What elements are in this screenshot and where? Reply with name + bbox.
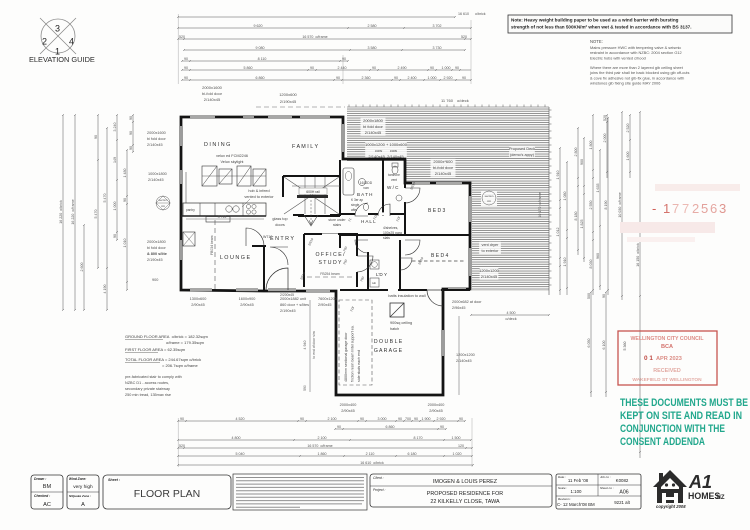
svg-text:5 860: 5 860 <box>244 66 253 70</box>
svg-text:1 020: 1 020 <box>453 452 462 456</box>
door ldy <box>400 258 412 270</box>
svg-text:1 480: 1 480 <box>123 169 127 178</box>
deck top edge with ticks <box>347 105 549 108</box>
svg-text:6 860: 6 860 <box>386 425 395 429</box>
kitchen bench outline <box>183 203 266 216</box>
svg-text:2/140x45: 2/140x45 <box>365 130 382 135</box>
svg-text:4 190: 4 190 <box>103 285 107 294</box>
door gap bath <box>355 212 368 215</box>
svg-text:5 470: 5 470 <box>94 210 98 219</box>
svg-text:10 170 o/frame: 10 170 o/frame <box>538 192 542 217</box>
svg-text:TOTAL FLOOR AREA = 244.67sqm o: TOTAL FLOOR AREA = 244.67sqm o/brick <box>125 357 201 362</box>
svg-text:bi fold door: bi fold door <box>147 137 167 141</box>
garage left dims <box>309 300 311 392</box>
svg-text:3 240: 3 240 <box>113 123 117 132</box>
svg-text:stairs: stairs <box>333 223 341 227</box>
svg-text:90: 90 <box>94 135 98 139</box>
svg-text:90: 90 <box>129 146 133 150</box>
svg-text:2: 2 <box>692 201 699 216</box>
svg-text:Date :: Date : <box>558 475 566 479</box>
svg-text:Note: Heavy weight building pa: Note: Heavy weight building paper to be … <box>511 18 679 23</box>
svg-text:single: single <box>351 203 360 207</box>
kitchen side counter <box>185 172 187 203</box>
svg-text:L'D Y: L'D Y <box>376 272 387 277</box>
svg-text:2/190x45: 2/190x45 <box>280 309 296 313</box>
svg-text:vent dryer: vent dryer <box>482 243 500 247</box>
door garage entry <box>427 290 443 306</box>
svg-text:very high: very high <box>73 484 93 490</box>
interior wall bath/wc <box>340 159 405 235</box>
svg-text:4 713: 4 713 <box>218 215 227 219</box>
svg-text:8 030: 8 030 <box>589 260 593 269</box>
svg-text:K0082: K0082 <box>616 478 629 483</box>
svg-text:2 920: 2 920 <box>437 417 446 421</box>
svg-text:section: section <box>159 198 168 202</box>
svg-text:W710: W710 <box>263 235 272 239</box>
svg-text:G A R A G E: G A R A G E <box>374 348 403 354</box>
svg-text:90: 90 <box>360 417 364 421</box>
svg-text:Sheet :: Sheet : <box>108 478 121 482</box>
svg-text:S T U D Y: S T U D Y <box>318 260 342 266</box>
svg-text:3: 3 <box>719 201 726 216</box>
window left wall 2 <box>180 170 182 184</box>
svg-text:1 010: 1 010 <box>123 239 127 248</box>
svg-text:6 100: 6 100 <box>602 341 606 350</box>
svg-text:2 550: 2 550 <box>589 201 593 210</box>
svg-text:tub: tub <box>372 281 377 285</box>
svg-text:Scale :: Scale : <box>558 486 567 490</box>
door gap bed3 <box>403 188 406 202</box>
svg-text:120: 120 <box>458 444 464 448</box>
svg-text:2: 2 <box>42 37 47 47</box>
svg-text:90: 90 <box>300 417 304 421</box>
deck label vent dryer <box>479 242 501 254</box>
door gap ldy bottom <box>388 288 398 291</box>
floor area text block <box>125 334 208 397</box>
svg-text:GROUND FLOOR AREA o/brick = 1: GROUND FLOOR AREA o/brick = 182.32sqm <box>125 334 208 339</box>
note box heavy weight building paper <box>508 15 732 33</box>
svg-text:AA: AA <box>161 204 165 208</box>
stairs bottom wall segments <box>293 214 340 216</box>
svg-text:2/90x45: 2/90x45 <box>318 303 332 307</box>
svg-text:CONJUNCTION WITH THE: CONJUNCTION WITH THE <box>620 423 725 435</box>
kitchen sink circles <box>226 206 232 212</box>
hall toilet small <box>363 204 368 211</box>
svg-text:5 360: 5 360 <box>623 342 627 351</box>
kitchen oven <box>183 232 195 246</box>
dashed line above top wall <box>256 106 345 108</box>
svg-text:1 012: 1 012 <box>556 228 560 237</box>
svg-text:2 440: 2 440 <box>338 66 347 70</box>
svg-text:velux ed FCM2246: velux ed FCM2246 <box>216 154 248 158</box>
svg-text:1 825: 1 825 <box>580 220 584 229</box>
svg-text:Client :: Client : <box>373 476 384 480</box>
svg-text:1 080: 1 080 <box>563 192 567 201</box>
svg-text:-: - <box>652 201 656 216</box>
svg-text:90: 90 <box>184 66 188 70</box>
svg-text:o/frame = 179.35sqm: o/frame = 179.35sqm <box>166 340 205 345</box>
laundry tub and machines <box>370 260 379 269</box>
svg-text:K 3er ap: K 3er ap <box>351 198 363 202</box>
svg-text:after: after <box>351 208 358 212</box>
svg-text:90: 90 <box>184 76 188 80</box>
skylight boxes <box>202 166 266 186</box>
svg-text:1 860: 1 860 <box>318 452 327 456</box>
svg-text:doors: doors <box>275 223 285 227</box>
svg-text:2000x1600: 2000x1600 <box>147 131 166 135</box>
svg-text:B E D 3: B E D 3 <box>428 208 445 214</box>
svg-text:Velux skylight: Velux skylight <box>220 160 244 164</box>
svg-text:90: 90 <box>129 131 133 135</box>
svg-text:2 000: 2 000 <box>603 134 607 143</box>
door gap hall-entry <box>322 233 338 236</box>
svg-text:1:100: 1:100 <box>571 489 583 494</box>
bath basin <box>359 179 366 186</box>
svg-text:90: 90 <box>372 66 376 70</box>
dim extension verticals top <box>178 14 471 84</box>
kitchen bench front edge <box>181 215 266 217</box>
window left wall 1 <box>180 126 182 146</box>
svg-text:8 170: 8 170 <box>414 436 423 440</box>
svg-text:4/shelves,: 4/shelves, <box>383 226 398 230</box>
svg-text:860 door + s/lites: 860 door + s/lites <box>280 303 309 307</box>
svg-text:2/90x45: 2/90x45 <box>191 303 205 307</box>
deck label 2000x600 bifold <box>431 159 456 177</box>
svg-text:3 702: 3 702 <box>433 24 442 28</box>
svg-text:90: 90 <box>342 57 346 61</box>
door wc <box>378 204 390 216</box>
stairs treads <box>292 177 340 214</box>
svg-text:90: 90 <box>459 417 463 421</box>
svg-text:Job no :: Job no : <box>600 475 611 479</box>
svg-text:o/deck: o/deck <box>457 98 469 103</box>
svg-text:520: 520 <box>461 35 467 39</box>
interior wall hall lower <box>340 235 405 248</box>
svg-text:4800mm sectional garage door: 4800mm sectional garage door <box>344 332 348 382</box>
svg-text:o/brick: o/brick <box>475 12 486 16</box>
svg-text:2/90x45: 2/90x45 <box>429 409 443 413</box>
svg-text:glass top: glass top <box>272 217 287 221</box>
interior wall entry/hall nib <box>320 233 340 235</box>
svg-text:AA: AA <box>487 199 491 203</box>
deck label 1000x1200+1000x600 <box>365 142 407 160</box>
title block cell sheet floor plan <box>103 475 231 509</box>
exterior walls outline <box>181 117 470 395</box>
ceiling hatch square <box>390 303 404 317</box>
dim extension verticals bottom <box>178 418 472 467</box>
svg-text:7: 7 <box>672 201 679 216</box>
svg-text:6: 6 <box>710 201 717 216</box>
svg-text:2/140x45: 2/140x45 <box>481 274 498 279</box>
svg-text:1 000: 1 000 <box>442 66 451 70</box>
window bed3 top wall <box>412 182 430 184</box>
stairs rail bar <box>297 195 328 198</box>
svg-text:slats: slats <box>383 236 390 240</box>
svg-text:tantrune: tantrune <box>388 173 400 177</box>
deck side dim 4500 <box>470 311 550 321</box>
entry door opening bottom <box>268 289 296 291</box>
svg-text:Revision :: Revision : <box>558 497 571 501</box>
svg-text:90: 90 <box>113 234 117 238</box>
window garage right wall <box>442 330 444 356</box>
svg-text:11 Feb '08: 11 Feb '08 <box>568 478 589 483</box>
svg-text:bi fold door: bi fold door <box>147 246 167 250</box>
svg-text:149: 149 <box>113 157 117 163</box>
svg-text:2 360: 2 360 <box>362 76 371 80</box>
svg-text:9221 alt: 9221 alt <box>614 500 630 505</box>
svg-text:5: 5 <box>701 201 708 216</box>
svg-text:960: 960 <box>596 253 600 259</box>
svg-text:9 080: 9 080 <box>256 46 265 50</box>
svg-text:hatch: hatch <box>390 327 399 331</box>
svg-text:90: 90 <box>180 417 184 421</box>
door lounge/entry <box>246 228 264 246</box>
door bed3 swing <box>405 188 420 203</box>
svg-text:8 190: 8 190 <box>604 201 608 210</box>
svg-text:E N T R Y: E N T R Y <box>270 236 294 242</box>
title block fine print <box>233 474 367 510</box>
bath tub <box>343 168 354 195</box>
svg-text:KEPT ON SITE AND READ IN: KEPT ON SITE AND READ IN <box>620 410 742 422</box>
garage right dim <box>458 316 460 395</box>
garage door dashed box <box>339 300 372 385</box>
svg-text:10 030 o/frame: 10 030 o/frame <box>618 192 622 217</box>
svg-text:500: 500 <box>587 293 591 299</box>
svg-text:900sq ceiling: 900sq ceiling <box>390 321 412 325</box>
svg-text:1600x900: 1600x900 <box>239 297 256 301</box>
A1 Homes logo house icon <box>653 470 687 503</box>
deck label 2000x1800 bifold <box>361 118 386 136</box>
svg-text:Checked :: Checked : <box>34 494 50 498</box>
svg-text:D O U B L E: D O U B L E <box>374 339 403 345</box>
svg-text:16 610 o/brick: 16 610 o/brick <box>360 461 384 465</box>
svg-text:1 000: 1 000 <box>113 202 117 211</box>
svg-text:590: 590 <box>303 385 307 391</box>
svg-text:16 570 o/frame: 16 570 o/frame <box>307 444 332 448</box>
bed4 wardrobe dashed line <box>412 260 466 262</box>
window bed3 top wall b <box>436 182 462 184</box>
svg-text:N/Quake Zone :: N/Quake Zone : <box>69 494 91 498</box>
beam dashed FB034 <box>214 220 216 290</box>
svg-text:Drawn :: Drawn : <box>34 477 46 481</box>
svg-text:2/90x45: 2/90x45 <box>240 303 254 307</box>
svg-text:B E D 4: B E D 4 <box>431 253 448 259</box>
window top wall 4 <box>300 116 330 118</box>
svg-text:2/140x45: 2/140x45 <box>456 359 472 363</box>
stairs top wall <box>283 176 340 197</box>
top dimension lines <box>177 12 486 81</box>
svg-text:1200x1200: 1200x1200 <box>479 268 500 273</box>
svg-text:IMOGEN & LOUIS PEREZ: IMOGEN & LOUIS PEREZ <box>433 479 498 485</box>
svg-text:1 500: 1 500 <box>452 436 461 440</box>
door gap office <box>355 256 358 272</box>
svg-text:bi-fold door: bi-fold door <box>433 165 454 170</box>
svg-text:THESE DOCUMENTS MUST BE: THESE DOCUMENTS MUST BE <box>620 397 748 409</box>
svg-text:16 220 o/frame: 16 220 o/frame <box>71 199 75 224</box>
svg-text:bi fold door: bi fold door <box>363 124 383 129</box>
svg-text:Project :: Project : <box>373 488 385 492</box>
svg-text:FB034 beam: FB034 beam <box>210 235 214 255</box>
svg-text:1 910: 1 910 <box>563 258 567 267</box>
svg-text:6 180: 6 180 <box>408 452 417 456</box>
svg-text:secondary private stairway: secondary private stairway <box>125 387 170 391</box>
svg-text:o/deck: o/deck <box>505 317 516 321</box>
beam dashed FB254 <box>307 276 355 278</box>
svg-text:90: 90 <box>123 198 127 202</box>
svg-text:2 100: 2 100 <box>328 417 337 421</box>
elevation guide circle <box>40 18 76 57</box>
svg-text:2/190x45: 2/190x45 <box>147 258 163 262</box>
svg-text:3 580: 3 580 <box>368 46 377 50</box>
svg-text:A: A <box>81 502 85 508</box>
svg-text:2000x1800: 2000x1800 <box>363 118 384 123</box>
svg-text:L O U N G E: L O U N G E <box>220 255 250 261</box>
svg-text:W / C: W / C <box>387 185 399 190</box>
svg-text:90: 90 <box>455 66 459 70</box>
section AA marker <box>156 196 170 210</box>
svg-text:1612DD: 1612DD <box>360 181 373 185</box>
deck right edge with ticks <box>549 107 552 295</box>
svg-text:520: 520 <box>179 35 185 39</box>
svg-text:700: 700 <box>405 417 411 421</box>
svg-text:6 050: 6 050 <box>587 339 591 348</box>
svg-text:2/200x45: 2/200x45 <box>280 293 294 297</box>
interior wall ldy <box>340 240 470 290</box>
bottom dimension lines <box>177 417 474 466</box>
window lounge bottom 2 <box>236 289 258 291</box>
svg-text:WELLINGTON CITY COUNCIL: WELLINGTON CITY COUNCIL <box>630 336 704 342</box>
council stamp box <box>618 331 717 385</box>
svg-text:90: 90 <box>129 116 133 120</box>
svg-text:2 800: 2 800 <box>574 148 578 157</box>
svg-text:22 KILKELLY CLOSE, TAWA: 22 KILKELLY CLOSE, TAWA <box>430 499 500 505</box>
svg-text:to end of door sim: to end of door sim <box>312 331 316 358</box>
svg-text:520: 520 <box>179 444 185 448</box>
deck section AA marker <box>481 191 497 206</box>
svg-text:3 000: 3 000 <box>378 417 387 421</box>
title block cell wind zone <box>67 475 99 509</box>
svg-text:1200x600: 1200x600 <box>279 92 297 97</box>
svg-text:90: 90 <box>337 425 341 429</box>
svg-text:FIRST FLOOR AREA = 62.35sqm: FIRST FLOOR AREA = 62.35sqm <box>125 347 186 352</box>
svg-text:90: 90 <box>602 294 606 298</box>
svg-text:2/96x45: 2/96x45 <box>452 306 466 310</box>
wc basin <box>396 195 402 201</box>
svg-text:2 520: 2 520 <box>626 124 630 133</box>
svg-text:winstones gib fixing site guid: winstones gib fixing site guide MAY 2006 <box>590 81 660 86</box>
svg-text:9 620: 9 620 <box>254 24 263 28</box>
svg-text:90: 90 <box>440 425 444 429</box>
svg-text:F A M I L Y: F A M I L Y <box>292 144 318 150</box>
svg-text:7: 7 <box>682 201 689 216</box>
svg-text:16 610: 16 610 <box>458 12 469 16</box>
svg-text:1 635: 1 635 <box>596 184 600 193</box>
svg-text:to exterior: to exterior <box>482 249 500 253</box>
svg-text:hob & infeed: hob & infeed <box>248 189 269 193</box>
title block cell drawn/checked <box>31 475 63 509</box>
door entry inner <box>270 247 288 265</box>
dim 4713 inside lounge <box>186 215 264 219</box>
svg-text:cow cow: cow cow <box>375 148 397 153</box>
svg-text:4 500: 4 500 <box>507 311 516 315</box>
svg-text:NOTE:: NOTE: <box>590 39 603 44</box>
svg-text:O F F I C E /: O F F I C E / <box>315 252 345 258</box>
svg-text:A06: A06 <box>619 490 628 496</box>
svg-text:2 490: 2 490 <box>398 66 407 70</box>
teal marker text <box>620 397 748 448</box>
svg-text:1 800: 1 800 <box>589 141 593 150</box>
stairs down arrow <box>304 215 318 226</box>
svg-text:900: 900 <box>580 159 584 165</box>
window bed4 right wall <box>469 248 471 276</box>
window top wall 2 <box>243 116 254 118</box>
window top wall 1 <box>190 116 215 118</box>
interior wall office/study <box>304 234 357 287</box>
interior wall lounge/entry <box>252 246 266 290</box>
svg-text:2 580: 2 580 <box>368 24 377 28</box>
svg-text:1 900: 1 900 <box>422 417 431 421</box>
kitchen island bench <box>206 217 230 223</box>
title block date/scale/revision <box>556 474 641 509</box>
svg-text:90: 90 <box>394 76 398 80</box>
svg-text:90: 90 <box>184 57 188 61</box>
svg-text:16 570 o/frame: 16 570 o/frame <box>302 35 327 39</box>
svg-text:250 min tread, 135max rise: 250 min tread, 135max rise <box>125 393 171 397</box>
svg-text:C- 12 March'08 BM: C- 12 March'08 BM <box>557 502 595 507</box>
svg-text:2 920: 2 920 <box>444 76 453 80</box>
svg-text:2 100: 2 100 <box>318 436 327 440</box>
interior wall hall/bed3 <box>405 234 470 236</box>
svg-text:RECEIVED: RECEIVED <box>653 368 681 374</box>
svg-text:2 600: 2 600 <box>80 263 84 272</box>
faint pink smudge top <box>655 184 740 191</box>
general notes paragraph <box>589 39 689 86</box>
A1 Homes logo text <box>656 472 725 509</box>
svg-text:van: van <box>363 186 369 190</box>
svg-text:copyright 2008: copyright 2008 <box>656 504 686 509</box>
window top wall 3 <box>268 116 292 118</box>
svg-text:4: 4 <box>69 37 74 47</box>
svg-text:2/140x45: 2/140x45 <box>147 143 163 147</box>
svg-text:520: 520 <box>603 115 607 121</box>
window bed3 right wall <box>469 196 471 222</box>
svg-text:Proposed Deck: Proposed Deck <box>509 147 535 151</box>
svg-text:3: 3 <box>55 24 60 34</box>
svg-text:2/90x45: 2/90x45 <box>341 409 355 413</box>
svg-text:5 470: 5 470 <box>103 194 107 203</box>
svg-text:vent: vent <box>391 178 397 182</box>
svg-text:1 910: 1 910 <box>556 171 560 180</box>
svg-text:NZ: NZ <box>717 495 725 501</box>
window lounge bottom 1 <box>190 289 212 291</box>
kitchen hob circles <box>246 204 256 214</box>
svg-text:2000x1882 unit: 2000x1882 unit <box>280 297 307 301</box>
deck label 1200x1200 <box>480 268 499 280</box>
door office <box>357 256 373 272</box>
svg-text:batts insulation to wall: batts insulation to wall <box>388 294 425 298</box>
svg-text:600H rail: 600H rail <box>306 190 320 194</box>
svg-text:1 600: 1 600 <box>626 152 630 161</box>
window family right wall <box>342 124 344 152</box>
svg-text:2000x*600: 2000x*600 <box>433 159 453 164</box>
svg-text:90: 90 <box>462 76 466 80</box>
svg-text:section: section <box>485 194 494 198</box>
window left wall 3 <box>180 240 182 260</box>
proposed deck caption <box>509 146 535 158</box>
svg-text:vented to exterior: vented to exterior <box>244 195 274 199</box>
svg-text:Wind Zone:: Wind Zone: <box>69 477 86 481</box>
svg-text:FB254 beam: FB254 beam <box>320 272 340 276</box>
